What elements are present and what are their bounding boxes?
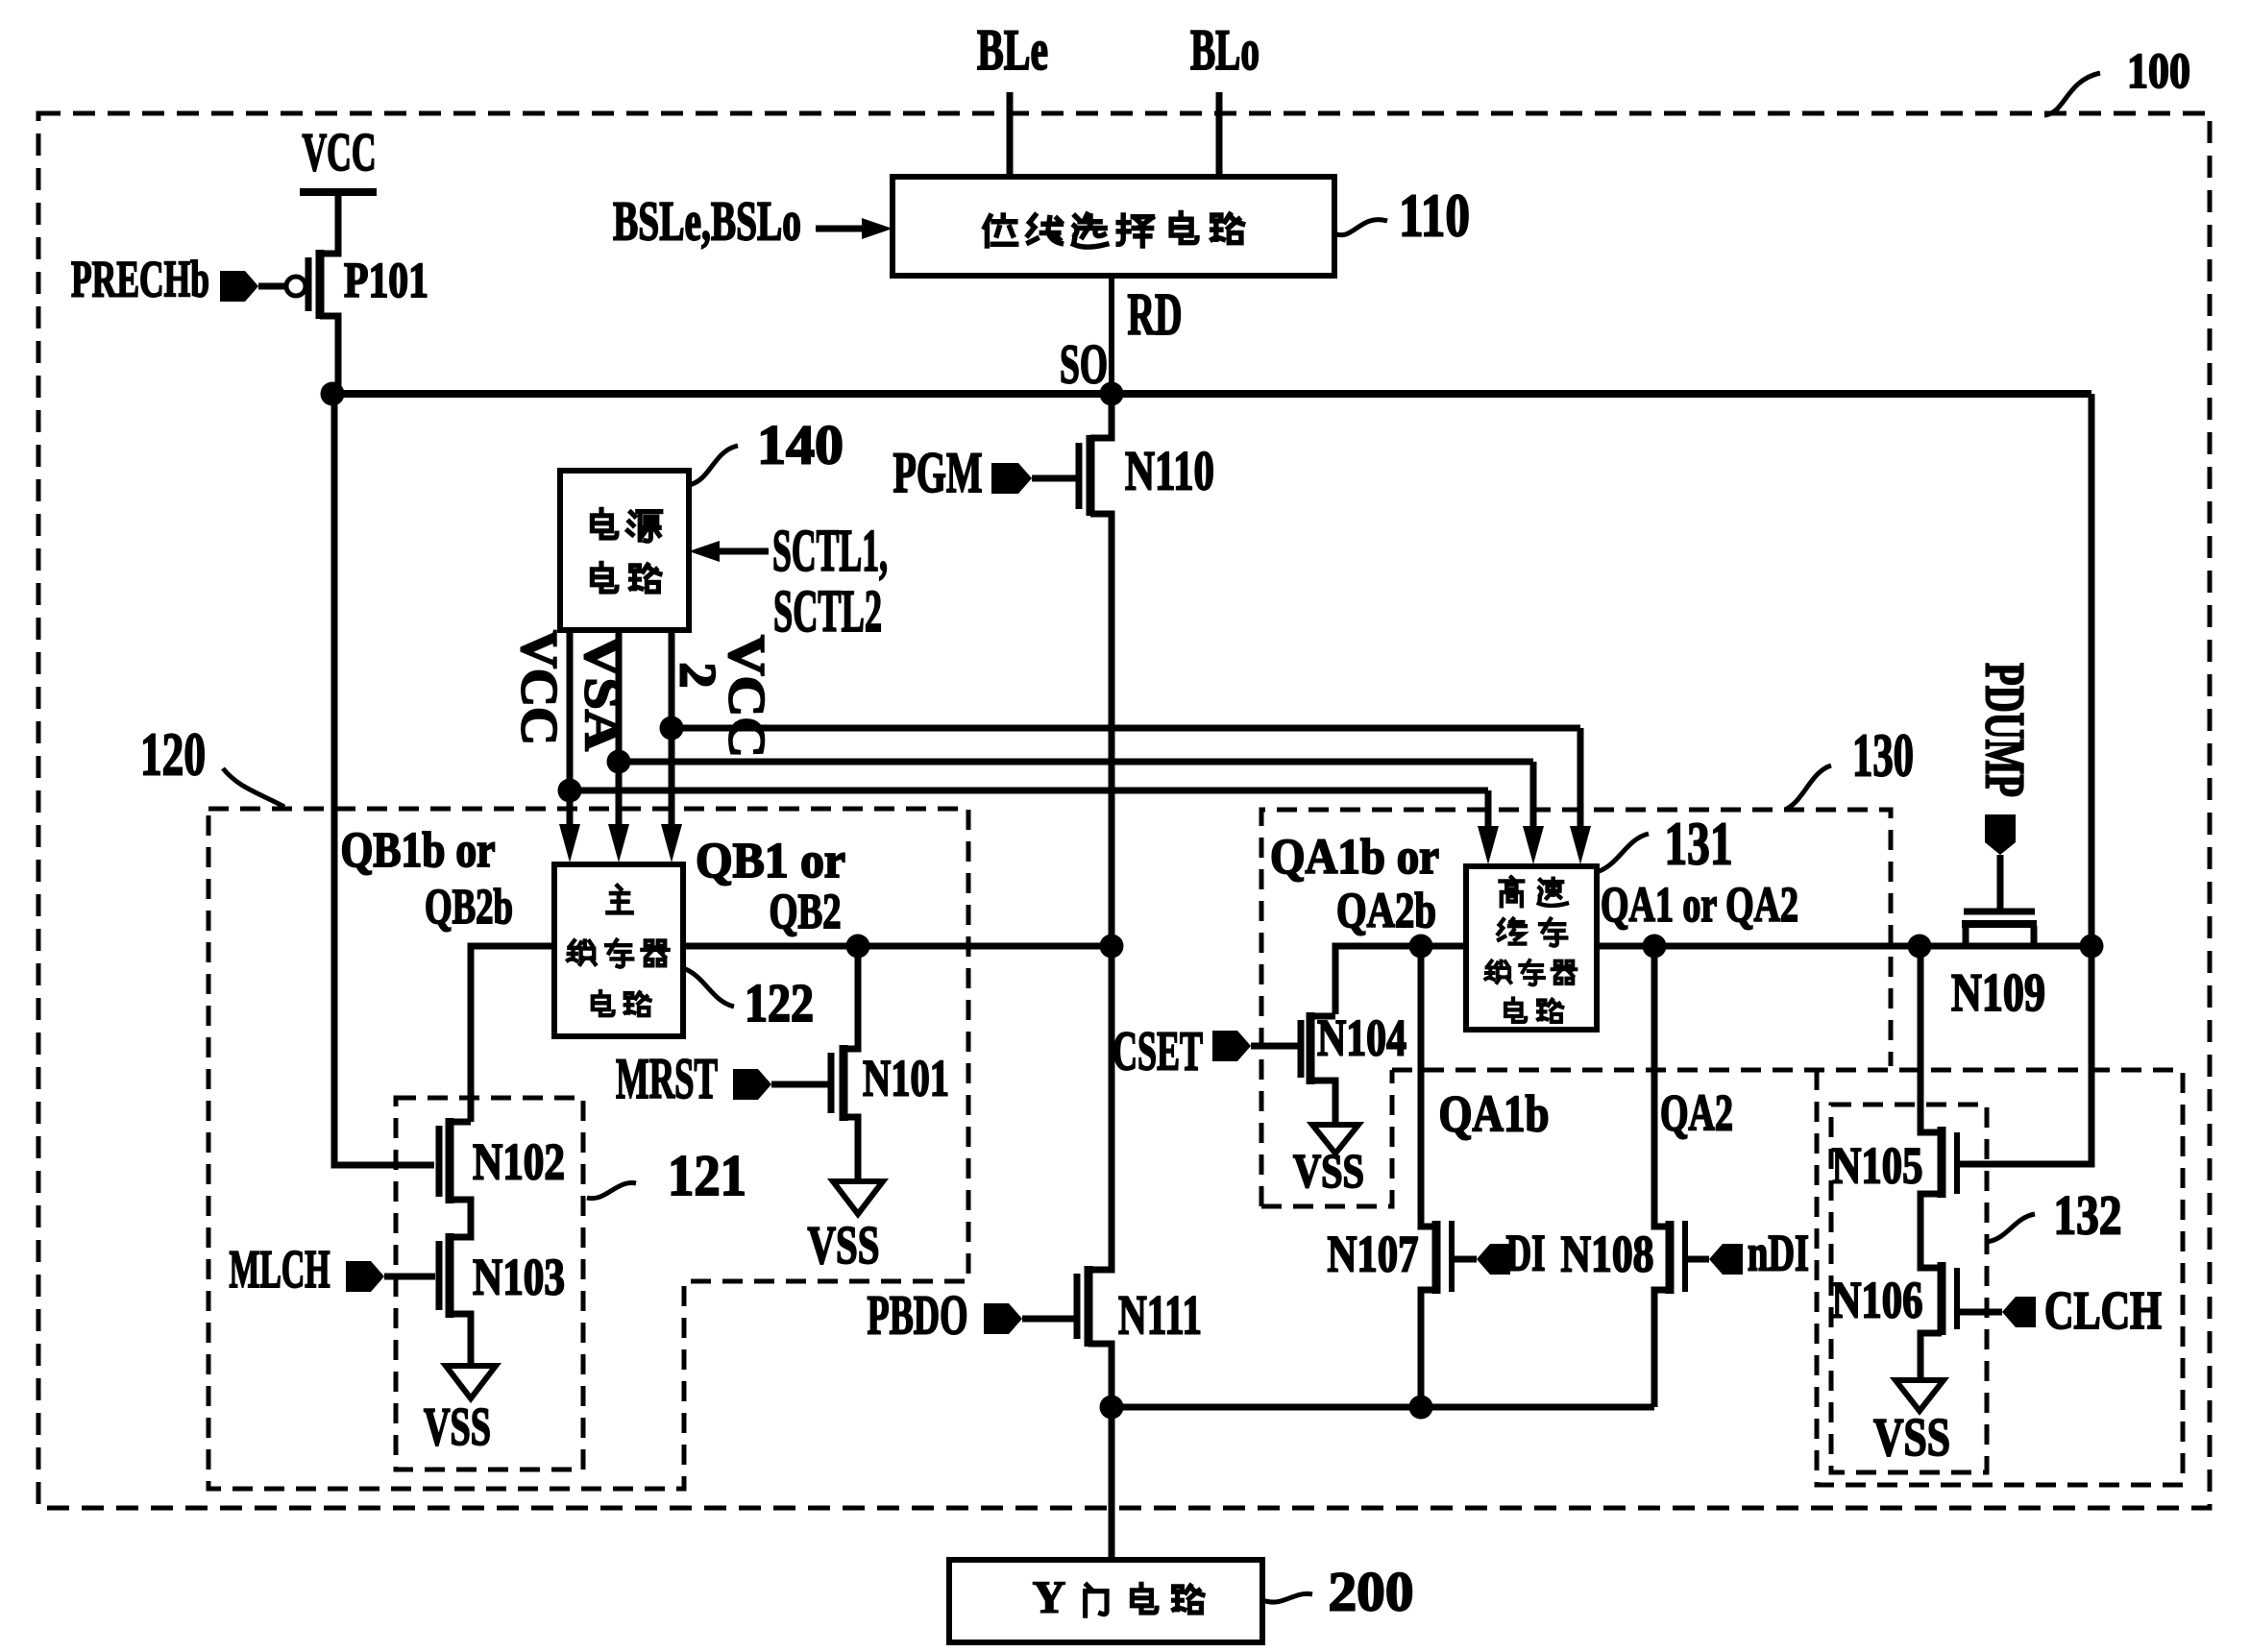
- ground VSS below N103: [446, 1366, 496, 1398]
- label 132 with leader: [1987, 1214, 2035, 1242]
- wire center column to Y gate: [1109, 1407, 1115, 1560]
- svg-text:SCTL2: SCTL2: [773, 579, 882, 644]
- input DI: [1477, 1244, 1510, 1275]
- input CLCH: [1960, 1309, 2002, 1316]
- svg-text:MLCH: MLCH: [230, 1240, 330, 1300]
- dashed boundary around N104: [1261, 1070, 1392, 1206]
- wire N108 source to bottom rail: [1654, 1290, 1670, 1407]
- wire QA2b from N104 to cache latch: [1335, 946, 1466, 1014]
- svg-text:N103: N103: [473, 1248, 565, 1305]
- svg-text:nDI: nDI: [1748, 1224, 1809, 1281]
- transistor N105 NMOS: [1938, 1127, 1946, 1198]
- wire VCC to P101 source: [320, 195, 338, 254]
- wire N101 drain to QB wire: [844, 949, 858, 1049]
- svg-text:N106: N106: [1832, 1271, 1923, 1328]
- wire P101 drain to SO: [320, 316, 338, 392]
- label 130 with leader: [1785, 765, 1831, 810]
- transistor N107 NMOS: [1432, 1221, 1441, 1294]
- svg-text:QA1 or QA2: QA1 or QA2: [1601, 878, 1798, 933]
- svg-text:VCC: VCC: [719, 635, 776, 758]
- wire N106 source to ground: [1920, 1333, 1942, 1378]
- wire right feedback column from SO to N105 gate: [1960, 394, 2091, 1164]
- block 110 bit line select circuit: [893, 177, 1334, 276]
- svg-text:BSLe,BSLo: BSLe,BSLo: [613, 189, 801, 252]
- svg-text:QB2: QB2: [770, 885, 842, 939]
- block 122 main latch circuit: [554, 864, 683, 1036]
- svg-text:140: 140: [757, 413, 844, 475]
- block 200 Y gate circuit: [949, 1560, 1262, 1642]
- ground VSS below N101: [833, 1181, 883, 1214]
- wire N103 source to ground: [450, 1314, 471, 1364]
- transistor N104 NMOS: [1307, 1012, 1315, 1084]
- wire N105 source to N106 drain: [1920, 1194, 1942, 1268]
- wire QB from main latch to center column: [683, 943, 1112, 950]
- svg-text:VCC: VCC: [511, 630, 569, 745]
- svg-text:QA2: QA2: [1660, 1083, 1733, 1141]
- wire N102 source to N103 drain: [450, 1200, 471, 1237]
- transistor N101 NMOS: [840, 1045, 848, 1121]
- dashed main register boundary 120: [208, 809, 968, 1489]
- junction QB at center column: [1100, 935, 1124, 959]
- junction QA2b at QA1b branch: [1409, 935, 1433, 959]
- transistor N110 NMOS: [1087, 435, 1095, 516]
- wire BLo to bit line select box: [1216, 92, 1223, 179]
- label 200 with leader: [1262, 1593, 1312, 1602]
- svg-text:122: 122: [745, 974, 814, 1033]
- wire N111 drain from center column: [1088, 948, 1112, 1270]
- svg-text:PBDO: PBDO: [868, 1283, 968, 1346]
- junction SO center: [1100, 382, 1124, 406]
- svg-text:121: 121: [668, 1144, 746, 1207]
- wire N102 drain jog: [450, 1119, 471, 1126]
- wire QA1b branch to N107 drain: [1421, 949, 1436, 1227]
- svg-text:110: 110: [1399, 182, 1470, 250]
- junction QA at N105 drain: [1908, 935, 1932, 959]
- wire BLe to bit line select box: [1007, 92, 1014, 179]
- transistor P101 PMOS: [316, 250, 325, 319]
- label 121 with leader: [587, 1183, 636, 1199]
- svg-text:N102: N102: [473, 1132, 565, 1190]
- wire N110 source down center column: [1090, 514, 1112, 946]
- junction QB at N101 drain: [846, 935, 870, 959]
- junction QA2 at cache wire: [1643, 935, 1667, 959]
- transistor N106 NMOS: [1938, 1262, 1946, 1335]
- input SCTL1 SCTL2: [689, 541, 720, 562]
- svg-text:QA1b or: QA1b or: [1270, 830, 1439, 885]
- junction bottom rail center: [1100, 1396, 1124, 1420]
- wire N111 source to bottom rail: [1088, 1344, 1112, 1407]
- wire SO horizontal rail: [332, 390, 2091, 398]
- svg-text:2: 2: [670, 663, 727, 689]
- label 100 with leader: [2044, 73, 2100, 115]
- label 110 with leader: [1334, 220, 1387, 235]
- wire N110 drain to SO: [1090, 397, 1112, 438]
- label 140 with leader: [689, 446, 738, 485]
- svg-text:130: 130: [1852, 721, 1914, 790]
- junction VCC2 branch: [660, 717, 684, 741]
- wire N104 source to ground: [1310, 1081, 1335, 1123]
- wire VCC supply line horizontal: [570, 788, 1488, 794]
- wire VCC2 supply line vertical: [669, 630, 675, 828]
- transistor N108 NMOS: [1666, 1221, 1675, 1294]
- svg-text:P101: P101: [344, 254, 428, 308]
- svg-text:QB1b or: QB1b or: [341, 823, 496, 878]
- label 131 with leader: [1597, 834, 1649, 872]
- wire N107 source to bottom rail: [1421, 1290, 1436, 1407]
- label 122 with leader: [683, 968, 734, 1007]
- wire SO down-left branch to N102 gate: [334, 396, 434, 1165]
- junction SO left: [321, 382, 345, 406]
- transistor N102 NMOS: [446, 1118, 454, 1203]
- junction VCC branch: [558, 779, 582, 803]
- dashed latch-transistor boundary 121: [396, 1098, 583, 1470]
- wire QA2 branch to N108 drain: [1654, 949, 1670, 1227]
- svg-text:PGM: PGM: [893, 441, 983, 504]
- dashed cache register boundary 130: [1261, 810, 1891, 1206]
- wire VCC2 supply right vertical to cache latch: [1577, 728, 1584, 830]
- wire QA from cache latch to N109: [1597, 943, 2091, 950]
- block 131 cache latch circuit: [1466, 866, 1597, 1030]
- wire VSA supply line horizontal: [619, 759, 1533, 765]
- input nDI: [1709, 1244, 1743, 1275]
- wire N105 drain to QA wire: [1920, 949, 1942, 1132]
- wire N101 source to ground: [844, 1117, 858, 1179]
- svg-text:VCC: VCC: [303, 123, 377, 182]
- svg-text:VSS: VSS: [808, 1216, 880, 1275]
- svg-text:MRST: MRST: [616, 1047, 718, 1110]
- svg-text:120: 120: [140, 720, 206, 789]
- transistor N103 NMOS: [446, 1233, 454, 1318]
- transistor N111 NMOS: [1085, 1266, 1093, 1347]
- wire VCC2 supply line horizontal: [672, 725, 1580, 732]
- svg-text:BLo: BLo: [1190, 18, 1260, 82]
- transistor N109 NMOS horizontal: [1962, 920, 2037, 928]
- svg-text:VSS: VSS: [1873, 1408, 1950, 1468]
- ground VSS below N106: [1895, 1380, 1944, 1411]
- wire N104 drain jog: [1310, 1013, 1335, 1020]
- wire QB1b from main latch to N102 drain: [471, 946, 554, 1122]
- svg-text:100: 100: [2127, 44, 2190, 99]
- svg-text:QA2b: QA2b: [1336, 884, 1436, 938]
- svg-text:N101: N101: [863, 1049, 949, 1106]
- svg-text:N108: N108: [1561, 1225, 1654, 1282]
- svg-text:VSS: VSS: [1293, 1143, 1364, 1197]
- dashed step boundary right section: [1817, 1070, 2183, 1485]
- svg-text:N110: N110: [1125, 439, 1214, 501]
- junction VSA branch: [607, 750, 631, 774]
- svg-text:PDUMP: PDUMP: [1974, 663, 2037, 797]
- svg-text:SO: SO: [1060, 332, 1108, 395]
- net RD: [1109, 276, 1114, 394]
- svg-text:SCTL1,: SCTL1,: [772, 519, 888, 584]
- dashed latch-transistor boundary 132: [1831, 1105, 1987, 1472]
- svg-text:DI: DI: [1506, 1224, 1546, 1281]
- svg-text:200: 200: [1329, 1560, 1414, 1622]
- svg-text:VSS: VSS: [424, 1397, 491, 1457]
- svg-text:QA1b: QA1b: [1439, 1084, 1550, 1142]
- svg-text:Y: Y: [1033, 1572, 1066, 1623]
- wire VSA supply right vertical to cache latch: [1530, 762, 1537, 830]
- wire VSA supply line vertical: [616, 630, 623, 828]
- svg-text:N111: N111: [1118, 1283, 1202, 1346]
- dashed inner boundary horizontal: [1392, 1068, 2183, 1073]
- junction bottom rail at N107: [1409, 1396, 1433, 1420]
- svg-text:BLe: BLe: [977, 18, 1048, 82]
- svg-text:PRECHb: PRECHb: [71, 250, 209, 307]
- svg-text:N107: N107: [1328, 1225, 1419, 1282]
- svg-text:131: 131: [1665, 810, 1733, 878]
- svg-text:RD: RD: [1128, 282, 1183, 348]
- junction QA at right feedback column: [2080, 935, 2104, 959]
- svg-text:VSA: VSA: [575, 636, 632, 751]
- svg-text:N105: N105: [1832, 1136, 1923, 1194]
- svg-text:N109: N109: [1951, 963, 2045, 1023]
- svg-text:CLCH: CLCH: [2044, 1281, 2162, 1341]
- svg-text:132: 132: [2054, 1183, 2122, 1246]
- block 140 power circuit: [560, 471, 689, 630]
- svg-text:CSET: CSET: [1113, 1019, 1203, 1081]
- wire bottom rail to data transistors: [1112, 1404, 1654, 1411]
- wire VCC supply right vertical to cache latch: [1485, 790, 1492, 830]
- svg-text:QB2b: QB2b: [425, 880, 513, 935]
- svg-text:QB1 or: QB1 or: [696, 834, 845, 888]
- wire VCC supply line vertical: [567, 630, 574, 828]
- ground VSS below N104: [1312, 1125, 1358, 1154]
